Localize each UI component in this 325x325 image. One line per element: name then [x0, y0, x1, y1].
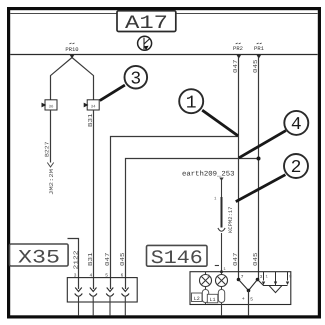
wire connector body — [221, 197, 223, 228]
connector X35 pin row — [67, 278, 137, 302]
svg-text:2: 2 — [291, 158, 302, 178]
svg-text:B31: B31 — [87, 252, 94, 266]
wire B31 — [93, 110, 95, 289]
connector tap under earth label — [219, 178, 223, 182]
bulb holder L2 — [202, 290, 208, 303]
pin tick mid — [275, 272, 277, 292]
svg-text:3: 3 — [74, 273, 77, 279]
svg-text:L1: L1 — [209, 297, 215, 303]
socket symbol pin5 — [106, 288, 114, 316]
internal V junction — [239, 280, 258, 291]
sensor branch diagonal — [258, 280, 288, 286]
socket symbol pin4 — [89, 288, 97, 316]
net label PR2 — [233, 43, 243, 52]
wire pin5 out — [248, 291, 250, 316]
callout circle 1 — [179, 89, 238, 136]
svg-text:KCPM2:17: KCPM2:17 — [227, 207, 234, 233]
svg-text:1: 1 — [186, 93, 197, 113]
wire earth to connector — [221, 180, 223, 197]
component label A17 — [117, 11, 176, 34]
svg-text:+: + — [242, 296, 245, 302]
wire X35 pin6 to 045 — [126, 159, 259, 290]
svg-text:047: 047 — [232, 252, 239, 266]
svg-text:3: 3 — [130, 69, 141, 89]
pin tick 1 — [263, 272, 265, 281]
wire 047 vertical — [238, 57, 240, 280]
svg-text:earth209_253: earth209_253 — [182, 170, 235, 179]
svg-text:045: 045 — [252, 59, 259, 73]
pin tick 8 — [287, 272, 289, 281]
junction dot earth at S146 — [220, 270, 223, 273]
svg-text:7: 7 — [241, 275, 244, 280]
node PR2 bus tap — [236, 55, 241, 59]
node PR1 bus tap — [256, 55, 261, 59]
label box L2 — [192, 293, 203, 302]
net label PR1 — [254, 43, 265, 52]
connector socket arc — [218, 228, 225, 231]
svg-text:B31: B31 — [87, 113, 94, 127]
pin 3 S146 — [256, 274, 263, 281]
minus mark — [215, 265, 219, 267]
bus line PR — [10, 54, 317, 56]
callout circle 4 — [239, 111, 308, 158]
svg-text:S146: S146 — [151, 247, 203, 269]
wire X35 pin5 to 047 — [111, 137, 239, 290]
connector box left (splice) — [42, 100, 58, 110]
wire 045 vertical — [258, 57, 260, 280]
wire B227 left branch — [50, 110, 52, 163]
svg-text:34: 34 — [91, 104, 96, 109]
connector half (chevron) on B227 — [47, 163, 53, 168]
svg-text:JM2:2M: JM2:2M — [48, 169, 55, 195]
component label S146 — [147, 245, 208, 269]
callout circle 2 — [236, 154, 308, 202]
socket symbol pin6 — [122, 288, 130, 316]
header line — [10, 13, 317, 15]
svg-text:047: 047 — [232, 59, 239, 73]
socket symbol pin3 — [75, 288, 83, 316]
svg-text:5: 5 — [105, 274, 108, 279]
svg-text:A17: A17 — [125, 12, 168, 34]
svg-text:045: 045 — [119, 252, 126, 266]
connector box right (splice) — [84, 100, 100, 110]
svg-text:B227: B227 — [43, 142, 50, 158]
svg-text:045: 045 — [252, 252, 259, 266]
node PR10 bus tap — [70, 55, 75, 59]
svg-text:4: 4 — [89, 274, 92, 279]
svg-text:36: 36 — [49, 104, 54, 109]
svg-text:5: 5 — [250, 298, 253, 303]
svg-text:PR2: PR2 — [233, 45, 243, 52]
pin 7 — [237, 275, 244, 281]
net label PR10 — [65, 43, 78, 53]
svg-text:4: 4 — [291, 115, 302, 135]
svg-text:PR10: PR10 — [65, 46, 78, 53]
sensor triangle — [269, 286, 282, 293]
lamp L2 — [200, 272, 212, 304]
svg-text:047: 047 — [104, 252, 111, 266]
svg-text:L2: L2 — [194, 296, 200, 302]
junction dot PR1/045 — [257, 157, 261, 161]
callout circle 3 — [100, 66, 147, 101]
label box L1 — [207, 294, 218, 303]
component box S146 — [190, 272, 291, 305]
clock icon — [138, 36, 152, 50]
wire to lamp L1 — [221, 233, 223, 274]
svg-text:PR1: PR1 — [254, 45, 265, 52]
component label X35 — [10, 244, 69, 269]
wire PR10 V split — [51, 58, 94, 100]
svg-text:6: 6 — [121, 273, 124, 279]
lamp L1 — [216, 275, 228, 316]
svg-text:X35: X35 — [18, 247, 60, 269]
svg-text:3: 3 — [260, 274, 263, 280]
svg-text:2122: 2122 — [72, 250, 79, 270]
wire 2122 from X35 — [68, 239, 79, 290]
bulb holder L1 — [218, 290, 224, 303]
